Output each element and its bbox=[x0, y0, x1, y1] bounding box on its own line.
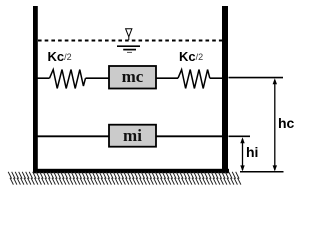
mass mi box bbox=[109, 125, 156, 147]
left wall bbox=[33, 6, 38, 173]
extension line at mi level (right of wall) bbox=[229, 135, 251, 137]
mass mc box bbox=[109, 66, 156, 89]
label Kc/2 (right) bbox=[179, 49, 203, 64]
wire: mc box to right spring bbox=[156, 77, 178, 79]
ground hatching bbox=[8, 172, 241, 185]
wire: left spring to mc box bbox=[86, 77, 110, 79]
spring Kc/2 (left) bbox=[50, 70, 86, 89]
wire: right spring to wall bbox=[210, 77, 224, 79]
free surface dashed line bbox=[38, 40, 223, 42]
baseline at ground level (right of hatch) bbox=[240, 171, 284, 173]
dimension hi arrow bbox=[240, 137, 244, 171]
label Kc/2 (left) bbox=[48, 49, 72, 64]
label mi bbox=[109, 125, 156, 147]
right wall bbox=[222, 6, 228, 173]
water level symbol (nabla) bbox=[117, 29, 140, 53]
wire: wall to mi box bbox=[36, 135, 109, 137]
dimension hc arrow bbox=[273, 78, 277, 171]
label hc bbox=[278, 115, 294, 131]
wire: wall to left spring bbox=[36, 77, 50, 79]
extension line at mc level (right of wall) bbox=[229, 77, 284, 79]
label hi bbox=[246, 144, 258, 160]
spring Kc/2 (right) bbox=[178, 70, 210, 89]
label mc bbox=[109, 66, 156, 89]
wire: mi box to wall bbox=[156, 135, 224, 137]
tank floor bbox=[33, 169, 229, 173]
